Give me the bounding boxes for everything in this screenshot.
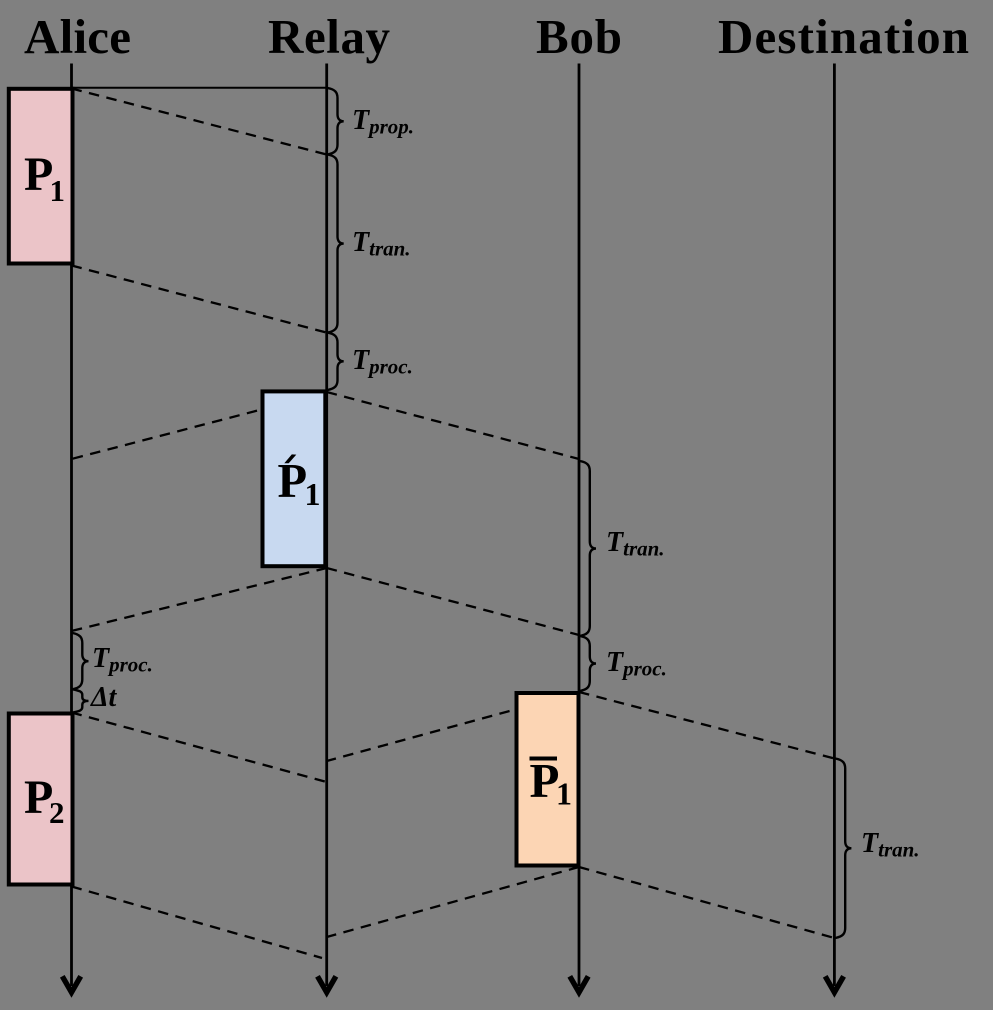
dashed line Bob Pbar1 top edge to Destination xyxy=(579,692,834,759)
dashed line Bob Pbar1 bottom edge to Destination xyxy=(579,867,834,938)
brace delta-t at Alice xyxy=(73,689,89,712)
brace T_tran at Relay xyxy=(328,155,344,333)
solid line P1 top to Relay xyxy=(72,87,327,89)
svg-text:2: 2 xyxy=(49,795,65,830)
dashed line Relay P'1 bottom edge back to Alice xyxy=(72,568,327,631)
svg-text:Relay: Relay xyxy=(268,9,391,64)
packet Pbar1 rectangle (bob copy) xyxy=(517,693,579,866)
lifeline Alice xyxy=(62,64,80,993)
packet P'1 rectangle (relay copy) xyxy=(263,391,326,566)
brace T_proc at Relay xyxy=(328,333,344,390)
dashed line P2 top edge to Relay xyxy=(72,713,327,783)
dashed line Bob Pbar1 bottom edge back to Relay xyxy=(327,867,579,937)
packet P2 rectangle xyxy=(9,714,73,885)
dashed line P2 bottom edge to Relay xyxy=(72,887,323,959)
brace T_proc at Alice xyxy=(73,633,89,689)
svg-text:Alice: Alice xyxy=(24,9,131,64)
packet P1 label xyxy=(24,148,65,208)
svg-text:1: 1 xyxy=(50,173,66,208)
svg-text:Δt: Δt xyxy=(90,682,118,713)
dashed line P1 bottom edge to Relay xyxy=(72,266,327,333)
svg-text:P: P xyxy=(530,753,560,808)
lifeline Destination xyxy=(825,64,843,993)
lifeline Relay xyxy=(318,64,336,993)
lifeline Bob xyxy=(570,64,588,993)
svg-text:Bob: Bob xyxy=(536,9,622,64)
dashed line Bob Pbar1 top edge back to Relay xyxy=(327,692,579,761)
svg-text:P: P xyxy=(278,455,308,508)
svg-text:1: 1 xyxy=(556,776,572,812)
brace T_tran at Bob xyxy=(580,461,596,636)
dashed line Relay P'1 top edge back to Alice xyxy=(72,393,327,460)
packet P2 label xyxy=(24,771,65,830)
brace T_prop at Relay xyxy=(328,88,344,155)
brace T_proc at Bob xyxy=(580,636,596,691)
dashed line Relay P'1 bottom edge to Bob xyxy=(327,568,579,635)
packet P'1 label xyxy=(278,454,321,512)
packet Pbar1 label xyxy=(530,753,573,812)
svg-text:1: 1 xyxy=(305,476,321,512)
packet P1 rectangle xyxy=(9,89,73,264)
dashed line Relay P'1 top edge to Bob xyxy=(327,392,579,459)
brace T_tran at Destination xyxy=(835,759,851,939)
dashed line P1 top edge to Relay xyxy=(72,89,327,155)
svg-text:Destination: Destination xyxy=(718,9,969,64)
